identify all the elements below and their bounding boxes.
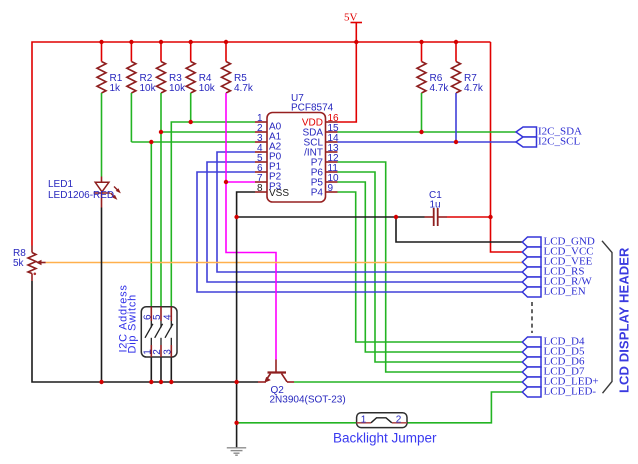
resistor R2 [127, 62, 136, 94]
node A2 [149, 140, 153, 144]
node rail sw2 [159, 380, 163, 384]
wire net GND R8 bottom and bottom rail [32, 281, 258, 382]
svg-text:10k: 10k [199, 83, 216, 94]
wire net LED- jumper right to LCD_LED- [407, 392, 522, 423]
dashed separator in header [531, 302, 533, 333]
wire switch 3 bottom to rail [170, 357, 172, 382]
dip switch box [141, 307, 177, 357]
wire net P0 RS pin 4 to LCD_RS [217, 152, 522, 272]
pin 3 stub [255, 141, 267, 143]
wire net P6 to LCD_D6 [338, 172, 523, 362]
wire net P7 to LCD_D7 [338, 162, 523, 372]
resistor R4 [186, 62, 195, 94]
wire net A0 horizontal to pin 1 and down to switch 4 [171, 122, 255, 307]
svg-text:8: 8 [257, 183, 263, 194]
pin 11 stub [326, 171, 338, 173]
transistor Q2 emitter leg [266, 374, 271, 381]
wire net A0sense green R1 to LED1 [101, 93, 103, 177]
LED LED1 light arrow 2 [111, 193, 116, 198]
wire 5V top rail [32, 42, 491, 246]
pin 12 stub [326, 161, 338, 163]
wire net A1 horizontal to pin 2 [161, 131, 255, 133]
node rail sw3 [169, 380, 173, 384]
LED LED1 triangle [95, 182, 109, 192]
backlight jumper box [357, 413, 407, 428]
node P3 [224, 180, 228, 184]
pin numbers left [257, 113, 263, 194]
node SCL [454, 140, 458, 144]
wire switch 1 bottom to rail [150, 357, 152, 382]
node rail R4 [189, 40, 193, 44]
pin 14 stub [326, 141, 338, 143]
switch 2 blade [155, 324, 163, 338]
switch 1 blade [145, 324, 153, 338]
node GND drop [394, 215, 398, 219]
header bracket [602, 241, 612, 393]
node rail vss [234, 380, 238, 384]
wire net A2 horizontal to pin 3 [131, 141, 255, 143]
wire net SDA green pin 15 to I2C_SDA [338, 131, 517, 133]
pin 8 stub [255, 191, 267, 193]
jumper pin 1 stub [357, 422, 371, 424]
connector I2C_SDA tag [516, 127, 537, 137]
switch 2 bottom contact [160, 338, 162, 345]
wire net A2 down to switch 6 [150, 142, 152, 307]
switch 3 blade [165, 324, 173, 338]
svg-text:4.7k: 4.7k [430, 83, 450, 94]
svg-text:LCD_LED-: LCD_LED- [544, 386, 597, 398]
svg-text:VSS: VSS [269, 188, 289, 199]
LED LED1 anode stub [101, 177, 103, 183]
wire R4 top stub [190, 42, 192, 62]
wire switch 2 bottom to rail [160, 357, 162, 382]
pin 6 stub [255, 171, 267, 173]
resistor R7 [452, 62, 461, 94]
wire net A2 green R2 down [130, 93, 132, 142]
pin 10 stub [326, 181, 338, 183]
svg-text:5k: 5k [13, 258, 25, 269]
wire net P3 magenta R5 down to pin 7 and Q2 base [226, 93, 276, 360]
connector LCD_D5 tag [522, 347, 541, 357]
wire net GND horizontal to C1 [237, 216, 425, 218]
svg-text:LCD_EN: LCD_EN [544, 286, 586, 298]
op-amp U7 PCF8574 box [267, 113, 326, 203]
node rail LED [99, 380, 103, 384]
svg-text:5V: 5V [344, 12, 358, 24]
pin 2 stub [255, 131, 267, 133]
pin 5 stub [255, 161, 267, 163]
wire net P5 to LCD_D5 [338, 182, 523, 352]
node rail R7 [454, 40, 458, 44]
wire net P4 to LCD_D4 [338, 192, 523, 342]
wire net SCL blue pin 14 to I2C_SCL [338, 141, 517, 143]
capacitor C1 plates [433, 208, 435, 226]
connector LCD_VEE tag [522, 257, 541, 267]
resistor R1 [97, 62, 106, 94]
resistor R5 [222, 62, 231, 94]
pin names right [302, 118, 324, 199]
connector LCD_VCC tag [522, 247, 541, 257]
transistor Q2 collector stub [287, 381, 294, 383]
svg-text:LCD DISPLAY HEADER: LCD DISPLAY HEADER [617, 247, 632, 393]
LED LED1 light arrow 1 [114, 187, 119, 192]
svg-text:1k: 1k [110, 83, 122, 94]
svg-text:10k: 10k [169, 83, 186, 94]
switch 3 bottom stub [170, 345, 172, 357]
switch 1 contact [150, 321, 152, 328]
wire jumper left to GND [237, 422, 357, 424]
wire net GND drop to LCD_GND [396, 217, 522, 242]
node rail R6 [419, 40, 423, 44]
connector LCD_LED+ tag [522, 377, 541, 387]
switch 2 top stub [160, 307, 162, 321]
switch 1 bottom stub [150, 345, 152, 357]
jumper pin 2 stub [392, 422, 407, 424]
svg-text:2: 2 [396, 414, 402, 425]
resistor R8 bottom stub [31, 274, 33, 282]
svg-text:4.7k: 4.7k [234, 83, 254, 94]
node VCC-C1 [488, 215, 492, 219]
svg-text:1: 1 [361, 414, 367, 425]
pin 13 stub [326, 151, 338, 153]
resistor R8 pin dot [34, 273, 37, 276]
connector I2C_SCL tag [516, 137, 537, 147]
svg-text:10k: 10k [140, 83, 157, 94]
resistor R3 [157, 62, 166, 94]
pin numbers right [328, 113, 340, 194]
svg-text:LED1: LED1 [48, 179, 73, 190]
wire C1 right to VCC rail [447, 216, 491, 218]
pin 16 stub [326, 121, 338, 123]
node rail 5V [354, 40, 358, 44]
svg-text:I2C_SCL: I2C_SCL [538, 136, 580, 148]
switch 2 bottom stub [160, 345, 162, 357]
resistor R8 wiper arrow [40, 262, 46, 264]
switch 2 contact [160, 321, 162, 328]
transistor Q2 collector leg [282, 374, 288, 382]
svg-text:9: 9 [328, 183, 334, 194]
pin 1 stub [255, 121, 267, 123]
svg-text:4: 4 [162, 314, 173, 320]
connector LCD_LED- tag [522, 387, 541, 397]
wire net GND black LED cathode down [101, 208, 103, 383]
node SDA [419, 130, 423, 134]
pin 4 stub [255, 151, 267, 153]
connector LCD_D4 tag [522, 337, 541, 347]
wire R1 top stub [101, 42, 103, 62]
wire R7 top stub [455, 42, 457, 62]
resistor R8 zigzag [28, 253, 36, 274]
wire net GND VSS pin 8 [237, 192, 255, 448]
switch 1 bottom contact [150, 338, 152, 345]
connector LCD_D7 tag [522, 367, 541, 377]
svg-text:4.7k: 4.7k [464, 83, 484, 94]
capacitor C1 right stub [438, 216, 447, 218]
svg-text:3: 3 [162, 349, 173, 355]
switch 3 contact [170, 321, 172, 328]
connector LCD_D6 tag [522, 357, 541, 367]
pin names left [269, 121, 289, 199]
pin 7 stub [255, 181, 267, 183]
capacitor C1 left stub [425, 216, 434, 218]
node gnd jumper [234, 421, 238, 425]
node A0 [189, 120, 193, 124]
wire R6 bottom to SDA [421, 93, 423, 132]
pin 9 stub [326, 191, 338, 193]
pin 15 stub [326, 131, 338, 133]
power symbol 5V [351, 23, 363, 43]
svg-text:2N3904(SOT-23): 2N3904(SOT-23) [270, 395, 346, 406]
connector LCD_RS tag [522, 267, 541, 277]
svg-text:1u: 1u [430, 200, 441, 211]
wire R2 top stub [130, 42, 132, 62]
jumper bridge [371, 418, 392, 423]
wire R6 top stub [421, 42, 423, 62]
svg-text:LED1206-RED: LED1206-RED [48, 190, 114, 201]
node rail R2 [129, 40, 133, 44]
svg-text:P4: P4 [311, 188, 324, 199]
transistor Q2 base bar [268, 371, 287, 373]
wire VDD riser from 5V rail to pin 16 [338, 42, 357, 122]
svg-text:Backlight Jumper: Backlight Jumper [333, 431, 437, 446]
wire net VEE orange R8 wiper to LCD_VEE [46, 262, 523, 264]
ground symbol [227, 448, 246, 455]
transistor Q2 base stub [275, 360, 277, 372]
resistor R6 [417, 62, 426, 94]
connector LCD_GND tag [522, 237, 541, 247]
wire net P2 EN pin 6 to LCD_EN [197, 172, 522, 292]
wire net P1 RW pin 5 to LCD_R/W [207, 162, 522, 282]
LED LED1 cathode stub [101, 193, 103, 208]
wire net A1 green R3 down to switch 5 [160, 93, 162, 307]
wire R7 bottom to SCL [455, 93, 457, 142]
connector LCD_EN tag [522, 287, 541, 297]
switch 3 bottom contact [170, 338, 172, 345]
wire R3 top stub [160, 42, 162, 62]
node rail R1 [99, 40, 103, 44]
node A1 [159, 130, 163, 134]
svg-text:Dip Switch: Dip Switch [126, 294, 138, 353]
node rail R3 [159, 40, 163, 44]
transistor Q2 emitter stub [258, 381, 266, 383]
node VSS-C1 [234, 215, 238, 219]
resistor R8 trimmer top stub [31, 246, 33, 253]
node rail sw1 [149, 380, 153, 384]
connector LCD_R/W tag [522, 277, 541, 287]
wire net P3 to pin 7 [226, 181, 255, 183]
switch 3 top stub [170, 307, 172, 321]
wire net A0 green R4 down [190, 93, 192, 122]
wire R5 top stub [225, 42, 227, 62]
wire net LED+ Q2 collector to LCD_LED+ [294, 381, 522, 383]
node rail R5 [224, 40, 228, 44]
LED LED1 cathode bar [94, 192, 110, 194]
wire 5V right rail to LCD_VCC [491, 42, 523, 252]
switch 1 top stub [150, 307, 152, 321]
